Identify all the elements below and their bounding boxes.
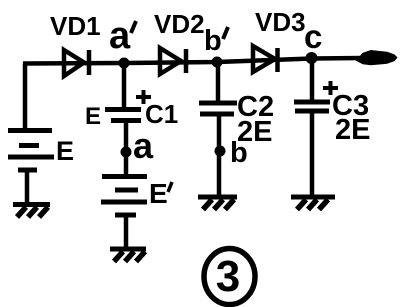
label C3 xyxy=(332,90,369,122)
ground (left, battery E) xyxy=(13,205,50,218)
wire C1 to node a xyxy=(124,120,129,152)
wire battery E' to ground xyxy=(124,215,129,248)
label VD1 xyxy=(50,11,101,41)
label E (battery E value) xyxy=(56,136,74,166)
svg-text:c: c xyxy=(304,18,322,55)
label 2E (value of C2) xyxy=(237,116,272,148)
wire left vertical drop to battery E xyxy=(23,64,28,131)
node b' xyxy=(212,57,223,68)
svg-text:E: E xyxy=(149,178,168,209)
wire node a to battery E' xyxy=(124,152,129,176)
label b' xyxy=(204,25,228,57)
svg-text:VD3: VD3 xyxy=(255,7,306,37)
battery E xyxy=(8,131,54,171)
wire node b to ground xyxy=(217,151,222,196)
arrow output terminal xyxy=(357,51,397,65)
node b xyxy=(215,146,226,157)
svg-text:b: b xyxy=(204,25,222,57)
diode VD1 xyxy=(64,50,89,76)
polarity + of C1 xyxy=(136,90,151,104)
capacitor C1 xyxy=(105,110,141,121)
figure number 3 in circle xyxy=(204,249,255,305)
wire node c down to C3 xyxy=(310,58,315,100)
wire top bus from left corner through nodes a' b' c to arrow xyxy=(23,58,362,64)
wire C3 to ground xyxy=(310,111,315,196)
node a xyxy=(121,147,132,158)
label a xyxy=(133,125,154,166)
wire battery E to ground xyxy=(25,170,30,203)
diode VD3 xyxy=(253,46,278,72)
label VD3 xyxy=(255,7,306,37)
node a' xyxy=(119,58,130,69)
svg-text:E: E xyxy=(85,103,101,130)
capacitor C3 xyxy=(294,102,330,111)
wire C2 to node b xyxy=(217,114,222,151)
label 2E (value of C3) xyxy=(335,114,370,146)
svg-text:2E: 2E xyxy=(335,114,370,146)
ground (under battery E') xyxy=(110,249,146,262)
svg-text:a: a xyxy=(109,15,131,57)
wire node b' down to C2 xyxy=(216,62,221,101)
label E' xyxy=(149,178,172,209)
label E (voltage across C1) xyxy=(85,103,101,130)
svg-text:3: 3 xyxy=(216,252,240,301)
capacitor C2 xyxy=(199,103,237,114)
wire node a' down to C1 xyxy=(122,63,127,107)
svg-text:E: E xyxy=(56,136,74,166)
ground (under C3) xyxy=(291,197,335,210)
label VD2 xyxy=(154,9,205,39)
svg-text:VD1: VD1 xyxy=(50,11,101,41)
node c xyxy=(306,52,318,64)
label a' xyxy=(109,15,136,57)
label b xyxy=(230,137,248,169)
svg-text:a: a xyxy=(133,125,154,166)
diode VD2 xyxy=(160,48,186,74)
svg-text:VD2: VD2 xyxy=(154,9,205,39)
polarity + of C3 xyxy=(323,81,338,95)
battery E' xyxy=(101,177,147,216)
ground (under node b) xyxy=(198,197,237,210)
svg-text:b: b xyxy=(230,137,248,169)
label C1 xyxy=(145,99,178,129)
label C2 xyxy=(237,91,274,123)
label c xyxy=(304,18,322,55)
